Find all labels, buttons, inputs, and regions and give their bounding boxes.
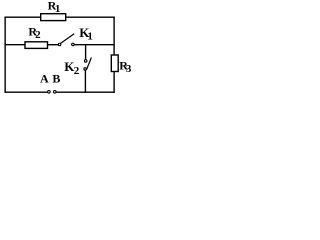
switch K1 right contact (72, 43, 75, 46)
resistor R3 (111, 55, 118, 72)
wire right edge upper (113, 17, 115, 56)
wire K2 branch lower (84, 70, 86, 93)
wire middle row left segment (5, 44, 25, 46)
switch K2 top contact (84, 60, 87, 63)
svg-text:B: B (52, 72, 60, 86)
svg-text:1: 1 (55, 3, 61, 15)
switch K1 pivot contact (58, 43, 61, 46)
switch K2 bottom contact (84, 68, 87, 71)
resistor R2 (25, 42, 48, 49)
resistor R1 (41, 14, 66, 21)
terminal A (48, 91, 51, 94)
wire top edge right segment (66, 16, 115, 18)
svg-text:2: 2 (35, 29, 41, 41)
svg-text:1: 1 (87, 31, 93, 43)
wire top edge left segment (5, 16, 41, 18)
wire middle row segment to K1 (48, 44, 59, 46)
switch K2 blade (86, 58, 91, 70)
terminal B (54, 91, 57, 94)
svg-text:2: 2 (74, 65, 80, 77)
svg-text:A: A (40, 72, 49, 86)
wire right edge lower (113, 71, 115, 93)
wire K2 branch upper (85, 45, 87, 60)
wire bottom edge right segment (56, 91, 114, 93)
switch K1 blade (61, 34, 74, 44)
wire left edge (4, 17, 6, 93)
wire bottom edge left segment (5, 91, 48, 93)
svg-text:3: 3 (126, 63, 132, 75)
wire middle row right segment (74, 44, 114, 46)
